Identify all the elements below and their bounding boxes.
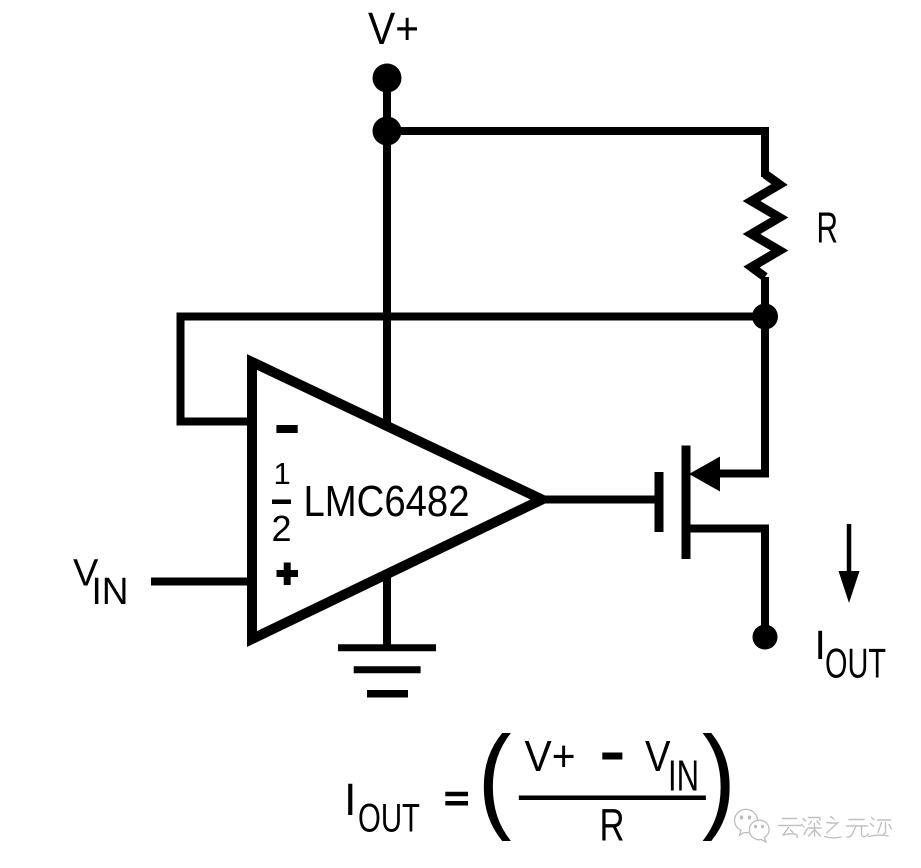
svg-text:OUT: OUT xyxy=(825,640,886,687)
arrow IOUT current xyxy=(839,524,860,603)
svg-text:(: ( xyxy=(478,712,512,842)
svg-text:V+: V+ xyxy=(368,3,419,54)
wire source to IOUT terminal xyxy=(690,529,765,633)
terminal dot V+ xyxy=(373,64,402,93)
wire feedback loop xyxy=(181,317,766,422)
svg-text:2: 2 xyxy=(272,508,292,549)
svg-text:I: I xyxy=(344,774,357,825)
wire top rail to resistor xyxy=(387,131,765,177)
wire V+ stub xyxy=(383,78,391,131)
watermark logo xyxy=(735,809,770,842)
svg-text:R: R xyxy=(817,204,839,253)
junction V+ node xyxy=(373,117,402,146)
wire drain to node xyxy=(716,320,765,474)
ground xyxy=(338,648,436,694)
svg-text:): ) xyxy=(702,712,736,842)
node feedback junction xyxy=(752,304,778,330)
wire resistor bottom to drain xyxy=(761,277,769,473)
transistor Q1 gate bar xyxy=(655,472,664,532)
svg-text:IN: IN xyxy=(668,752,699,801)
formula equals sign xyxy=(445,794,468,803)
op-amp label 1/2 bar xyxy=(272,500,291,505)
svg-text:LMC6482: LMC6482 xyxy=(304,477,470,526)
wire op-amp output to gate xyxy=(530,496,655,504)
svg-text:OUT: OUT xyxy=(358,797,420,841)
formula fraction bar xyxy=(519,795,706,800)
resistor R xyxy=(752,174,780,277)
svg-text:V+: V+ xyxy=(525,732,576,781)
label VIN xyxy=(73,553,129,614)
transistor Q1 channel bar xyxy=(682,446,691,560)
wire op-amp V+ supply xyxy=(383,131,391,428)
wire VIN input xyxy=(151,578,250,586)
op-amp U1 xyxy=(252,362,542,639)
formula minus sign xyxy=(602,753,622,760)
op-amp minus sign xyxy=(276,425,297,433)
svg-text:IN: IN xyxy=(92,571,129,613)
label IOUT xyxy=(815,622,887,687)
svg-text:R: R xyxy=(600,800,625,851)
watermark text xyxy=(779,817,892,838)
transistor Q1 drain arrowhead xyxy=(689,457,720,492)
wire op-amp V- supply to ground xyxy=(383,570,391,648)
svg-text:1: 1 xyxy=(274,456,291,491)
op-amp plus sign xyxy=(277,563,299,586)
terminal dot IOUT xyxy=(753,625,778,650)
